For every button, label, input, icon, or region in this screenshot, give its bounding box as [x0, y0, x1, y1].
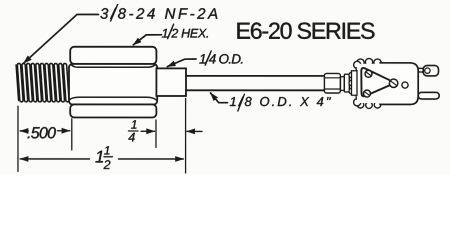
- 1/4 O.D. step section: [156, 68, 186, 96]
- hex body bottom band: [70, 104, 156, 117]
- leader for 1/2 HEX.: [133, 35, 161, 45]
- extension line left at thread start: [17, 106, 19, 171]
- connector scalloped disc: [349, 72, 355, 94]
- screw bottom-left: [363, 90, 370, 97]
- dim 1-1/2 left arrow: [20, 158, 89, 160]
- hex body middle band: [69, 64, 157, 105]
- oversized fraction slash of 1/8: [238, 94, 245, 111]
- label 1/4 O.D.: [199, 54, 242, 64]
- connector left edge line: [355, 68, 357, 100]
- 1/8 O.D. tube bottom line: [186, 89, 325, 91]
- connector triangular plate: [361, 68, 392, 96]
- leader for 3/8-24 NF-2A: [24, 14, 99, 63]
- hex chamfer arc upper: [71, 64, 156, 67]
- extension line at step right: [185, 98, 187, 172]
- dim 1-1/2 right arrow: [118, 158, 183, 160]
- dim text 1-1/2 whole: [95, 151, 103, 163]
- connector body: [380, 63, 418, 105]
- label 3/8-24 NF-2A: [100, 8, 217, 19]
- dim .500 left arrow: [20, 130, 28, 132]
- dim text 1-1/2 denominator: [103, 160, 110, 169]
- top pin stem: [418, 67, 423, 69]
- label 1/2 HEX.: [162, 28, 208, 37]
- body small circle: [402, 82, 408, 88]
- extension line at thread end: [71, 119, 73, 150]
- connector scallop bumps: [354, 58, 382, 108]
- top pin blade: [423, 65, 438, 75]
- bottom pin blade: [418, 92, 439, 99]
- hex chamfer arc lower: [70, 97, 156, 100]
- fraction bar of 1/4 dim: [128, 130, 138, 132]
- screw right at vertex: [389, 79, 397, 87]
- dim text .500: [28, 127, 56, 138]
- leader for 1/4 O.D.: [167, 59, 196, 67]
- 1/8 O.D. tube top line: [186, 75, 325, 77]
- oversized fraction slash of 1/2: [168, 24, 174, 38]
- leader for 1/8 O.D. x 4: [210, 93, 227, 103]
- connector collar: [344, 74, 349, 92]
- extension line at hex right: [155, 120, 157, 147]
- screw top-left: [365, 70, 372, 77]
- label 1/8 O.D. x 4": [230, 97, 331, 107]
- dim .500 right arrow: [57, 130, 69, 132]
- top pin dimple: [425, 68, 430, 73]
- dim text 1/4 denominator: [128, 133, 134, 142]
- connector neck: [340, 77, 344, 91]
- fraction bar of 1-1/2 dim: [104, 156, 113, 158]
- dim text 1-1/2 numerator: [104, 146, 109, 154]
- oversized fraction slash of 3/8: [111, 5, 118, 21]
- oversized fraction slash of 1/4: [205, 51, 211, 65]
- connector compression nut: [324, 73, 340, 93]
- dim 1/4 right arrow: [141, 130, 155, 132]
- title E6-20 SERIES: [237, 23, 374, 39]
- dim 1/4 outside arrow: [187, 130, 202, 132]
- hex body top band: [70, 47, 156, 64]
- dim text 1/4 numerator: [131, 120, 136, 128]
- threaded stud 3/8-24 thread ridges: [16, 64, 69, 102]
